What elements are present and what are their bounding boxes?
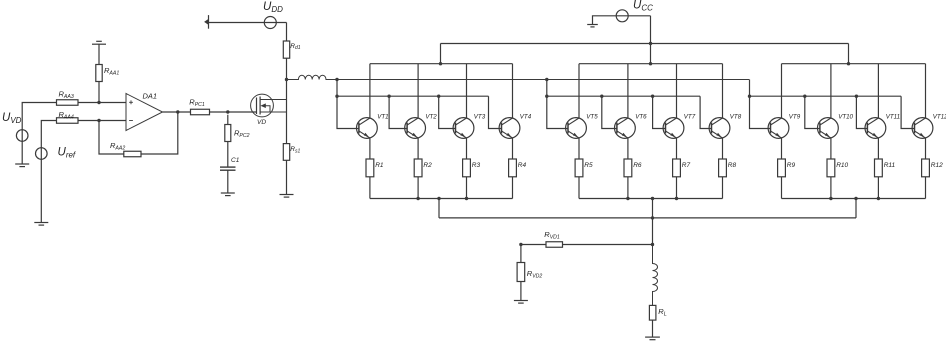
ground <box>280 195 294 198</box>
resistor RVD2 <box>517 263 525 282</box>
transistor VD (MOSFET) <box>251 94 287 117</box>
wire emitter VT1 <box>369 138 371 159</box>
node group2 tap <box>545 78 548 81</box>
node group3 collector junction <box>847 62 850 65</box>
node base rail tap <box>545 95 548 98</box>
wire -input node to RAA2 <box>99 121 124 155</box>
wire UCC to ground <box>593 16 651 25</box>
wire emitter VT2 <box>417 138 419 159</box>
resistor RAA3 <box>57 100 79 106</box>
wire group3 collector rail <box>782 63 926 65</box>
wire RL to ground <box>652 320 654 337</box>
node emitter drop junction <box>437 197 440 200</box>
wire collector VT12 <box>925 64 927 118</box>
transistor VT4 <box>499 118 520 139</box>
resistor RVD1 <box>546 242 563 248</box>
wire group3 base rail <box>750 95 902 97</box>
wire R9 to emitter rail <box>781 177 783 199</box>
ground <box>15 164 29 167</box>
wire group1 base rail <box>337 95 489 97</box>
node emitter junction <box>626 197 629 200</box>
wire R2 to emitter rail <box>417 177 419 199</box>
node group1 collector junction <box>439 62 442 65</box>
wire emitter VT3 <box>466 138 468 159</box>
wire R1 to emitter rail <box>369 177 371 199</box>
wire base VT7 <box>653 96 666 128</box>
resistor RPC1 <box>191 109 210 115</box>
svg-text:RVD2: RVD2 <box>527 269 543 279</box>
svg-text:VT10: VT10 <box>838 113 853 120</box>
node emitter drop junction <box>651 197 654 200</box>
wire group2 collector rail <box>579 63 723 65</box>
svg-text:R4: R4 <box>518 162 527 169</box>
ground <box>645 337 660 340</box>
wire C1 to ground <box>227 170 229 193</box>
svg-text:VT2: VT2 <box>425 113 437 120</box>
wire node to RPC2 <box>227 115 229 125</box>
node emitter junction <box>675 197 678 200</box>
resistor R5 <box>575 159 583 177</box>
wire base VT2 <box>389 96 407 128</box>
node base junction <box>600 95 603 98</box>
ground <box>92 41 106 44</box>
resistor RL <box>649 305 656 320</box>
svg-text:RL: RL <box>658 307 666 317</box>
wire UDD to Rd1 <box>286 23 288 42</box>
svg-text:VT3: VT3 <box>474 113 486 120</box>
wire collector VT10 <box>830 64 832 118</box>
wire collector VT5 <box>578 64 580 118</box>
svg-text:RVD1: RVD1 <box>544 230 560 240</box>
capacitor C1 <box>220 167 236 170</box>
resistor R12 <box>922 159 930 177</box>
svg-text:R10: R10 <box>836 162 848 169</box>
wire RPC1 to mosfet gate <box>210 111 257 113</box>
wire group1 emitter rail <box>370 198 513 200</box>
node emitter drop junction <box>854 197 857 200</box>
ground <box>587 25 598 27</box>
transistor VT9 <box>768 118 789 139</box>
svg-text:UVD: UVD <box>2 112 22 125</box>
wire Rs1 to ground <box>286 160 288 194</box>
wire Uref to RAA4 <box>41 121 56 223</box>
transistor VT3 <box>453 118 474 139</box>
wire R7 to emitter rail <box>676 177 678 199</box>
svg-text:Rd1: Rd1 <box>290 43 300 51</box>
wire Rd1 to drain node to Rs1 <box>286 58 288 143</box>
svg-text:R7: R7 <box>682 162 691 169</box>
wire bottom long rail <box>439 217 856 219</box>
wire collector VT6 <box>627 64 629 118</box>
svg-text:RAA3: RAA3 <box>59 90 74 100</box>
node UCC top-rail junction <box>649 42 652 45</box>
wire RAA4 to op-amp -input <box>78 120 126 122</box>
wire R5 to emitter rail <box>578 177 580 199</box>
transistor VT5 <box>566 118 587 139</box>
node emitter junction <box>829 197 832 200</box>
wire base VT11 <box>856 96 867 128</box>
node emitter junction <box>465 197 468 200</box>
wire base VT6 <box>602 96 617 128</box>
transistor VT7 <box>663 118 684 139</box>
wire R12 to emitter rail <box>925 177 927 199</box>
svg-text:VT11: VT11 <box>886 113 900 120</box>
wire R10 to emitter rail <box>830 177 832 199</box>
transistor VT1 <box>357 118 378 139</box>
wire base VT9 <box>750 80 771 129</box>
wire UCC down to group2 collector rail <box>650 16 652 64</box>
resistor R11 <box>875 159 883 177</box>
svg-text:Rs1: Rs1 <box>290 146 300 154</box>
transistor VT12 <box>912 118 933 139</box>
wire base VT3 <box>439 96 456 128</box>
node base junction <box>437 95 440 98</box>
node base junction <box>651 95 654 98</box>
svg-text:R8: R8 <box>728 162 737 169</box>
svg-text:VT4: VT4 <box>520 113 532 120</box>
wire down to RVD2 <box>520 245 522 263</box>
wire group3 drop <box>855 199 857 218</box>
wire R3 to emitter rail <box>466 177 468 199</box>
node UCC collector-rail junction <box>649 62 652 65</box>
wire group1 collector rail <box>370 63 513 65</box>
wire RVD1 to RVD2 <box>521 244 546 246</box>
wire emitter VT7 <box>676 138 678 159</box>
wire group3 emitter rail <box>782 198 926 200</box>
wire emitter VT9 <box>781 138 783 159</box>
node base junction <box>803 95 806 98</box>
svg-text:RPC1: RPC1 <box>189 98 205 108</box>
voltage source Uref <box>36 148 48 160</box>
svg-text:VT8: VT8 <box>730 113 742 120</box>
resistor R1 <box>366 159 374 177</box>
voltage source UCC <box>616 10 628 22</box>
wire op-amp output to RPC1 <box>163 111 191 113</box>
wire emitter VT10 <box>830 138 832 159</box>
svg-text:VT5: VT5 <box>586 113 598 120</box>
transistor VT11 <box>865 118 886 139</box>
svg-text:UCC: UCC <box>633 0 653 13</box>
inductor L1 <box>287 75 750 79</box>
svg-text:VT7: VT7 <box>684 113 696 120</box>
svg-text:VT12: VT12 <box>933 113 946 120</box>
wire base VT10 <box>805 96 820 128</box>
svg-text:RAA4: RAA4 <box>59 110 74 120</box>
wire UDD rail <box>209 22 287 24</box>
svg-text:VT6: VT6 <box>635 113 647 120</box>
wire emitter VT4 <box>512 138 514 159</box>
wire ground to RAA1 <box>98 45 100 65</box>
svg-text:VD: VD <box>257 119 266 126</box>
ground <box>514 301 528 304</box>
transistor VT6 <box>615 118 636 139</box>
wire base VT1 <box>337 80 359 129</box>
svg-text:RAA2: RAA2 <box>110 141 125 151</box>
resistor RAA2 <box>124 151 141 157</box>
resistor R7 <box>673 159 681 177</box>
wire group2 emitter rail <box>579 198 723 200</box>
wire collector VT4 <box>512 64 514 118</box>
wire UVD to RAA3 <box>22 103 56 165</box>
op-amp DA1 <box>126 94 163 131</box>
off-page arrow <box>204 15 208 29</box>
svg-text:RAA1: RAA1 <box>104 66 119 76</box>
svg-text:RPC2: RPC2 <box>234 129 250 139</box>
resistor R10 <box>827 159 835 177</box>
wire RAA1 to +input node <box>98 82 100 103</box>
wire RPC2 to C1 <box>227 142 229 168</box>
svg-text:VT9: VT9 <box>789 113 801 120</box>
node base rail tap <box>748 95 751 98</box>
transistor VT8 <box>709 118 730 139</box>
svg-text:R2: R2 <box>423 162 432 169</box>
wire R11 to emitter rail <box>877 177 879 199</box>
svg-text:R3: R3 <box>472 162 481 169</box>
resistor R9 <box>778 159 786 177</box>
voltage source UDD <box>264 17 276 29</box>
resistor R2 <box>414 159 422 177</box>
transistor VT2 <box>405 118 426 139</box>
node emitter junction <box>416 197 419 200</box>
wire emitter VT6 <box>627 138 629 159</box>
wire top rail to group1 collector rail <box>440 44 442 64</box>
wire base VT8 <box>700 96 711 128</box>
wire RAA2 feedback to output <box>141 112 178 154</box>
wire collector VT8 <box>722 64 724 118</box>
svg-text:R11: R11 <box>884 162 896 169</box>
resistor R6 <box>624 159 632 177</box>
node -input junction <box>97 119 100 122</box>
wire R6 to emitter rail <box>627 177 629 199</box>
svg-text:UDD: UDD <box>263 1 283 14</box>
wire base VT4 <box>489 96 502 128</box>
wire R4 to emitter rail <box>512 177 514 199</box>
wire group1 drop <box>438 199 440 218</box>
node output junction <box>176 110 179 113</box>
node base junction <box>855 95 858 98</box>
wire collector VT3 <box>466 64 468 118</box>
svg-text:C1: C1 <box>231 157 240 164</box>
ground <box>34 223 48 226</box>
wire emitter VT5 <box>578 138 580 159</box>
wire collector VT9 <box>781 64 783 118</box>
wire base VT5 <box>547 80 568 129</box>
node emitter junction <box>877 197 880 200</box>
svg-text:R9: R9 <box>787 162 796 169</box>
resistor RPC2 <box>225 125 231 142</box>
resistor R8 <box>719 159 727 177</box>
wire R8 to emitter rail <box>722 177 724 199</box>
transistor VT10 <box>818 118 839 139</box>
wire RAA3 to op-amp +input <box>78 102 126 104</box>
voltage source UVD <box>16 130 28 142</box>
wire emitter VT12 <box>925 138 927 159</box>
wire collector VT11 <box>877 64 879 118</box>
wire base VT12 <box>901 96 914 128</box>
svg-text:DA1: DA1 <box>143 92 158 101</box>
resistor R4 <box>509 159 517 177</box>
wire group2 drop to load node <box>652 199 654 245</box>
inductor L2 <box>653 245 658 306</box>
wire group2 base rail <box>547 95 700 97</box>
wire collector VT1 <box>369 64 371 118</box>
ground <box>221 193 235 196</box>
node group1 tap <box>335 78 338 81</box>
svg-text:R1: R1 <box>375 162 384 169</box>
svg-text:VT1: VT1 <box>377 113 388 120</box>
resistor RAA4 <box>57 118 79 124</box>
node base rail tap <box>335 95 338 98</box>
wire emitter VT8 <box>722 138 724 159</box>
node load junction <box>651 243 654 246</box>
node gate RC junction <box>226 110 229 113</box>
svg-text:R6: R6 <box>633 162 642 169</box>
node long rail junction <box>651 216 654 219</box>
resistor RAA1 <box>96 65 102 82</box>
wire collector VT7 <box>676 64 678 118</box>
resistor R3 <box>463 159 471 177</box>
node drain junction <box>285 78 288 81</box>
svg-text:R5: R5 <box>584 162 593 169</box>
resistor Rs1 <box>283 144 289 161</box>
svg-text:R12: R12 <box>931 162 943 169</box>
node RVD junction <box>519 243 522 246</box>
wire top rail <box>441 43 849 45</box>
wire top rail to group3 collector rail <box>848 44 850 64</box>
resistor Rd1 <box>283 41 289 58</box>
wire load node to RVD1 <box>563 244 653 246</box>
wire RVD2 to ground <box>520 282 522 301</box>
node +input junction <box>97 101 100 104</box>
node base junction <box>387 95 390 98</box>
wire collector VT2 <box>417 64 419 118</box>
svg-text:Uref: Uref <box>58 147 76 160</box>
wire emitter VT11 <box>877 138 879 159</box>
